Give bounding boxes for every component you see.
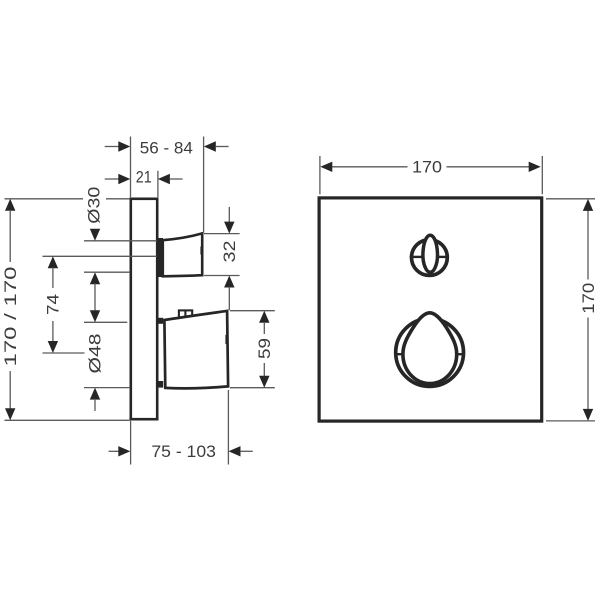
lower handle escutcheon circle [396,319,464,387]
extension line below lower knob (75-103 right) [227,390,229,465]
upper knob body (volume handle, side) [163,233,202,276]
170 top left arrow [320,162,332,172]
svg-text:32: 32 [221,241,239,263]
svg-text:170 / 170: 170 / 170 [2,267,20,367]
170/170 down arrow [9,371,11,409]
O30 down arrow [90,229,100,241]
extension line above plate right edge (21 dim) [157,171,159,197]
lower knob base stub top [158,318,163,324]
21 left arrow [105,178,119,180]
extension line above plate left edge [130,137,132,198]
O48 bottom reference line [84,387,129,389]
svg-text:74: 74 [45,294,63,315]
svg-text:170: 170 [580,283,598,314]
O30/O48 intermediate reference line [84,271,129,273]
32 top outside arrow [228,207,230,223]
170 top extension lines [319,156,321,194]
170/170 up arrow [5,199,15,211]
svg-text:56 - 84: 56 - 84 [140,139,193,157]
O48 top reference line [84,321,127,323]
svg-text:Ø48: Ø48 [87,334,105,374]
56-84 left arrow [105,146,119,148]
extension line 56-84 right (knob tip) [203,137,205,233]
svg-text:170: 170 [412,159,442,177]
74 down arrow [52,321,54,342]
extension line below plate (75-103 left) [130,421,132,465]
O48 upper outside arrows [90,272,100,284]
170 right bottom arrow [583,409,593,421]
upper handle right tick [439,256,449,258]
O48 lower outside arrow [90,388,100,400]
front plate square 170x170 [319,198,542,421]
svg-text:59: 59 [256,338,274,359]
59 dim extension bottom [230,387,275,389]
lower knob seam [225,335,227,344]
O30 lower reference line [84,240,157,242]
upper knob axis line [43,255,157,257]
upper knob base bar (escutcheon, filled) [158,238,163,277]
lower knob axis line [43,352,85,354]
170 right top arrow [583,199,593,211]
32 bottom outside arrow [224,276,234,288]
upper handle left tick [410,256,422,258]
74 up arrow [48,256,58,268]
plate bottom extension line (left) [5,419,130,421]
lower knob base stub bottom [158,381,163,388]
75-103 right arrow [229,446,241,456]
lower handle grip (teardrop shape) [403,313,457,384]
plate top extension line (left, to 170/170 dim) [5,198,84,200]
lower handle left tick [394,353,401,355]
svg-text:21: 21 [136,168,152,186]
lower handle right tick [458,353,465,355]
59 down arrow [263,363,265,376]
56-84 right arrow [204,141,216,151]
wall plate (side profile rectangle) [131,199,157,419]
32 dim extension top [204,233,240,235]
170 right dim line [587,211,589,280]
svg-text:Ø30: Ø30 [86,187,104,224]
170 top right arrow [529,162,541,172]
59 dim extension top [230,310,275,312]
upper handle grip (egg shape) [423,235,438,272]
21 right arrow [158,174,170,184]
svg-text:75 - 103: 75 - 103 [151,443,216,461]
safety-stop button on lower knob [178,310,193,317]
170 right extension lines [546,198,595,200]
upper handle escutcheon circle [412,240,448,276]
32 dim extension bottom [204,275,240,277]
upper knob seam [200,247,202,255]
lower knob body (thermostat handle, side) [164,311,228,388]
75-103 left arrow [109,450,120,452]
59 up arrow [259,311,269,323]
170 top dim line [331,166,408,168]
